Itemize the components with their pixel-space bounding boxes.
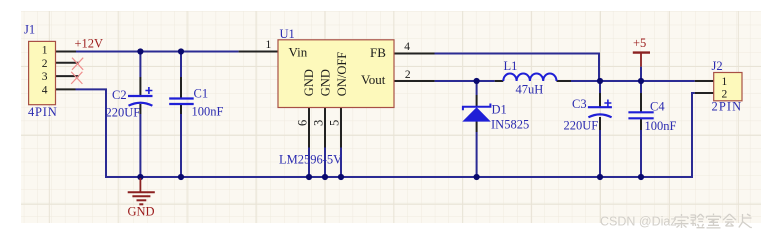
svg-text:Vout: Vout: [361, 72, 386, 87]
svg-text:GND: GND: [302, 69, 316, 96]
svg-text:4PIN: 4PIN: [28, 105, 58, 119]
svg-text:1: 1: [722, 76, 728, 88]
svg-text:+12V: +12V: [75, 37, 104, 51]
svg-text:4: 4: [404, 41, 410, 53]
svg-text:6: 6: [295, 120, 309, 126]
svg-text:100nF: 100nF: [192, 105, 224, 119]
svg-text:GND: GND: [128, 205, 155, 219]
svg-text:4: 4: [42, 84, 48, 96]
svg-text:2: 2: [42, 58, 48, 70]
svg-text:J2: J2: [712, 59, 723, 73]
svg-text:GND: GND: [318, 69, 332, 96]
svg-text:L1: L1: [504, 59, 518, 73]
svg-text:2PIN: 2PIN: [712, 100, 743, 114]
svg-text:2: 2: [405, 69, 411, 81]
svg-text:C4: C4: [650, 100, 665, 114]
svg-text:2: 2: [722, 89, 728, 101]
svg-text:47uH: 47uH: [516, 83, 544, 97]
svg-text:IN5825: IN5825: [491, 118, 529, 132]
svg-text:J1: J1: [24, 23, 35, 37]
svg-text:1: 1: [42, 45, 48, 57]
svg-text:C2: C2: [112, 88, 127, 102]
svg-text:+5: +5: [633, 36, 646, 50]
svg-text:FB: FB: [370, 45, 386, 60]
svg-text:3: 3: [311, 120, 325, 126]
svg-text:220UF: 220UF: [564, 119, 599, 133]
svg-text:ON/OFF: ON/OFF: [335, 52, 349, 97]
svg-text:LM2596-5V: LM2596-5V: [279, 153, 342, 167]
svg-text:C1: C1: [194, 87, 209, 101]
svg-text:3: 3: [42, 71, 48, 83]
svg-text:U1: U1: [280, 27, 295, 41]
svg-text:220UF: 220UF: [106, 106, 141, 120]
svg-text:CSDN @Diaz: CSDN @Diaz: [600, 215, 677, 229]
svg-text:Vin: Vin: [289, 45, 308, 60]
svg-text:C3: C3: [572, 97, 587, 111]
svg-text:100nF: 100nF: [645, 119, 677, 133]
svg-text:D1: D1: [492, 103, 507, 117]
svg-text:5: 5: [327, 120, 341, 126]
svg-text:1: 1: [266, 39, 272, 51]
